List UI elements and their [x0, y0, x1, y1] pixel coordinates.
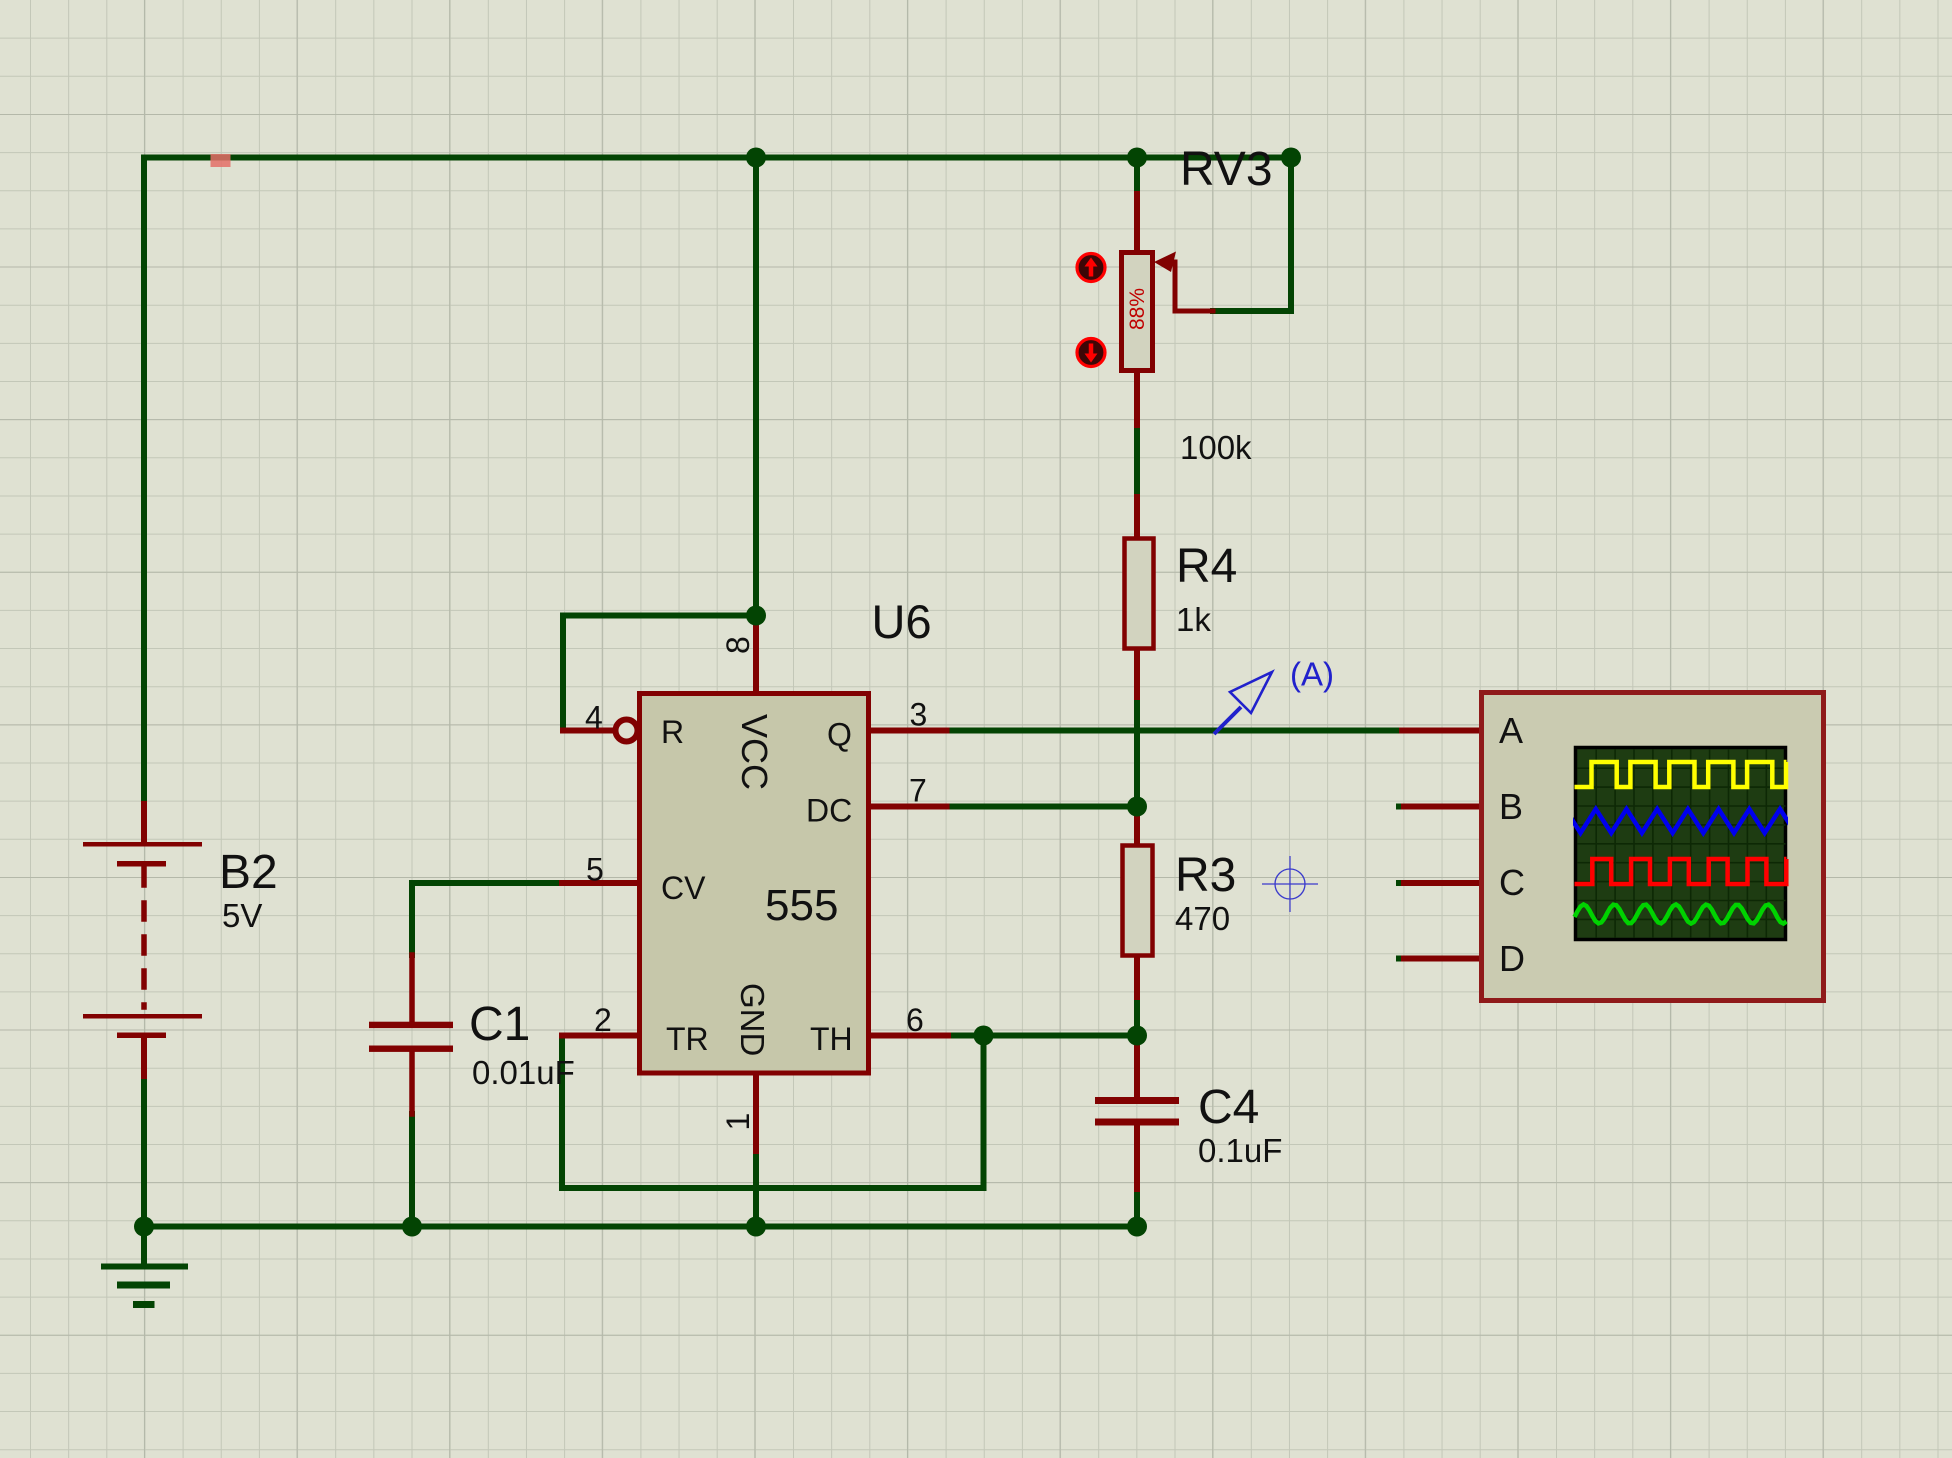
svg-text:1k: 1k	[1176, 601, 1211, 638]
svg-text:TH: TH	[810, 1021, 853, 1057]
svg-text:GND: GND	[734, 983, 771, 1056]
svg-text:(A): (A)	[1290, 656, 1334, 693]
svg-text:0.01uF: 0.01uF	[472, 1054, 575, 1091]
svg-text:C4: C4	[1198, 1081, 1259, 1134]
svg-text:C: C	[1499, 862, 1525, 903]
svg-text:B2: B2	[219, 846, 278, 899]
svg-text:4: 4	[585, 700, 603, 736]
svg-text:R3: R3	[1175, 849, 1236, 902]
svg-text:C1: C1	[469, 998, 530, 1051]
svg-text:0.1uF: 0.1uF	[1198, 1132, 1282, 1169]
svg-text:VCC: VCC	[734, 714, 775, 790]
svg-text:1: 1	[720, 1113, 756, 1131]
svg-text:R: R	[661, 714, 684, 750]
svg-text:88%: 88%	[1126, 288, 1149, 330]
svg-text:B: B	[1499, 786, 1523, 827]
svg-text:CV: CV	[661, 870, 706, 906]
svg-text:R4: R4	[1176, 540, 1237, 593]
svg-text:5V: 5V	[222, 897, 262, 934]
svg-text:6: 6	[906, 1002, 924, 1038]
svg-text:100k: 100k	[1180, 429, 1252, 466]
svg-text:3: 3	[910, 697, 928, 733]
svg-text:8: 8	[720, 636, 756, 654]
svg-text:A: A	[1499, 710, 1523, 751]
svg-text:7: 7	[909, 773, 927, 809]
svg-text:D: D	[1499, 938, 1525, 979]
svg-text:U6: U6	[872, 595, 932, 648]
svg-text:RV3: RV3	[1180, 143, 1273, 196]
svg-text:470: 470	[1175, 900, 1230, 937]
svg-text:5: 5	[586, 852, 604, 888]
svg-text:TR: TR	[666, 1021, 709, 1057]
svg-text:DC: DC	[806, 793, 852, 829]
svg-text:555: 555	[765, 881, 838, 930]
svg-text:2: 2	[594, 1002, 612, 1038]
svg-text:Q: Q	[827, 717, 852, 753]
